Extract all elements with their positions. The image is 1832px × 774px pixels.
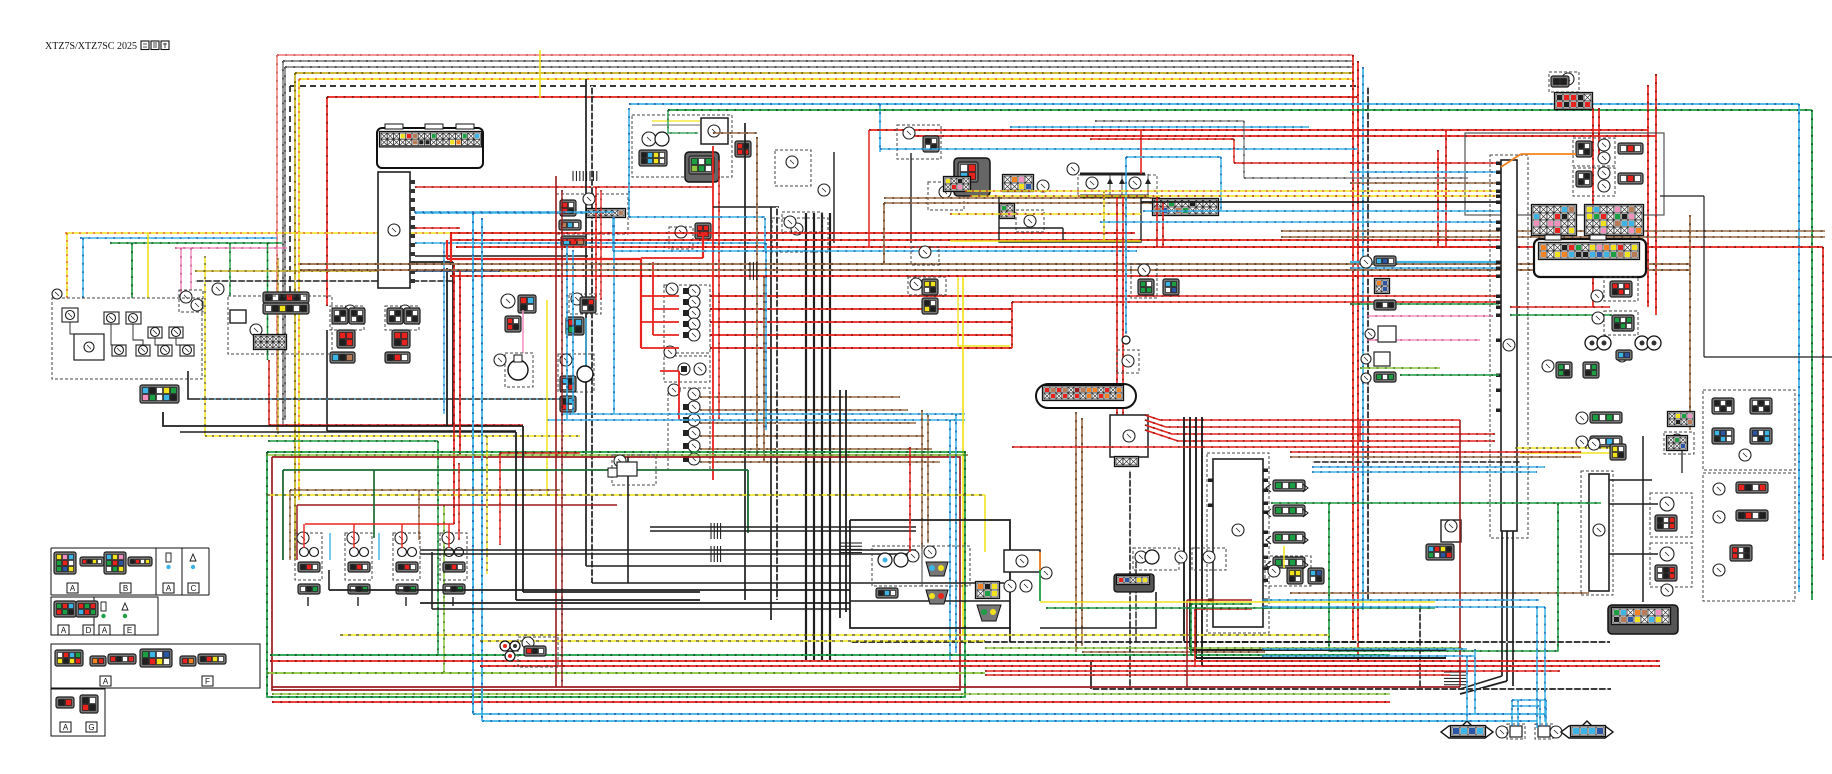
meter box 59: [1207, 453, 1269, 633]
relay 85: [62, 308, 78, 322]
wire yellow pair right: [1515, 447, 1610, 449]
wire bundle into tail unit: [1290, 451, 1581, 453]
wire red center risers: [453, 265, 455, 524]
diode 4: [669, 227, 693, 249]
wire yellow drop to connector B: [539, 50, 541, 98]
rear connector wide: [1608, 605, 1678, 634]
wire yellow mid bottom: [267, 494, 985, 496]
relay 90: [136, 345, 150, 356]
bottom connector row: [1441, 721, 1493, 738]
wire red feed fusebox: [1140, 130, 1142, 174]
component 27 28: [818, 184, 830, 196]
flasher connector: [954, 158, 990, 196]
svg-text:A: A: [70, 584, 76, 593]
svg-text:F: F: [205, 677, 210, 686]
wire black bottom trunk: [1091, 688, 1611, 690]
wire red 447: [1012, 446, 1460, 448]
frame lines right: [1660, 195, 1704, 197]
svg-text:G: G: [88, 723, 94, 732]
right small column 37-41: [1556, 362, 1572, 378]
sensor 58: [1265, 556, 1311, 586]
junction 30: [1016, 210, 1044, 232]
small connector by headlight: [735, 141, 751, 157]
wire black pair center: [713, 206, 779, 208]
connector 29b pin grid: [1003, 175, 1034, 192]
rear sensor group 65-70: [872, 546, 922, 586]
wire red trunk lines: [450, 232, 1135, 234]
svg-text:E: E: [127, 626, 132, 635]
wire cyan bottom stubs: [1511, 700, 1513, 726]
oval connector multipin: [1036, 384, 1136, 408]
wire red ladder bus left: [446, 240, 448, 259]
license light connector: [1664, 432, 1694, 454]
wire dred coil feed: [296, 505, 298, 560]
wire blue drop: [765, 243, 767, 430]
relay 53 54 33: [911, 247, 939, 265]
sensor 47 48 wires: [1510, 306, 1610, 308]
regulator cluster 3: [556, 194, 628, 234]
wire main harness top bundle: [277, 54, 1353, 56]
svg-text:A: A: [103, 677, 109, 686]
wire brown trunk lines: [300, 263, 1690, 265]
svg-text:A: A: [166, 584, 172, 593]
svg-text:C: C: [191, 584, 197, 593]
legend probes row1: [166, 553, 171, 562]
wire black below tall box: [1501, 531, 1503, 676]
wire red ladder feeds: [710, 295, 1012, 297]
svg-text:XTZ7S/XTZ7SC 2025: XTZ7S/XTZ7SC 2025: [45, 41, 137, 52]
rear brake 62 61 60: [1135, 551, 1147, 563]
black loop center bottom: [850, 520, 1010, 628]
wire yellow fusebox: [950, 213, 1141, 215]
injector ladder 18-24: [668, 388, 710, 470]
large connector right: [1534, 239, 1646, 277]
connector R dark: [685, 152, 719, 182]
ignition switch 44 45 46: [1573, 138, 1615, 166]
wire orange green 65: [1039, 552, 1041, 570]
svg-text:A: A: [63, 723, 69, 732]
relay 25: [775, 150, 811, 186]
tail unit 56: [1581, 471, 1613, 595]
legend connectors row3: [55, 650, 83, 666]
sensor 35: [1131, 264, 1157, 298]
junction box 60-62: [228, 296, 332, 354]
right edge sensor cluster: [1703, 390, 1795, 470]
wire trunk risers right: [1186, 600, 1188, 687]
wire black staircase: [522, 426, 524, 592]
pin row with x blocks: [1153, 199, 1219, 216]
wire yellow 58: [1283, 546, 1285, 568]
wire battery ground: [188, 371, 567, 399]
relay 89: [126, 312, 141, 324]
sensor 5: [569, 294, 601, 314]
wire left feeder lines to switch box: [65, 232, 560, 234]
sensor 6 connector: [518, 295, 536, 313]
frame gray box: [1465, 133, 1664, 215]
wire yellow green drops to bottom box: [204, 256, 206, 436]
wire olive black left horizontals: [195, 270, 540, 272]
connector below battery: [140, 385, 179, 403]
fuse box 31 32 33: [1067, 163, 1079, 175]
relay 94: [180, 345, 194, 356]
wire switch internal: [70, 322, 74, 334]
relay 28: [772, 218, 828, 252]
big pin grid connectors right: [1532, 205, 1577, 236]
sensor 72 cluster: [518, 637, 558, 667]
wire cyan center verticals: [628, 108, 630, 217]
sensor 8: [505, 353, 533, 387]
wire misc right greens: [1400, 374, 1499, 376]
tail lamp 54 55: [1650, 493, 1692, 537]
svg-text:A: A: [102, 626, 108, 635]
sensor 7: [558, 354, 594, 392]
wire pink drop 191: [190, 248, 192, 290]
wire black pair from top to ECU: [585, 79, 587, 566]
wire yellow green to sensor 57: [1040, 601, 1435, 603]
wire bottom red green trunks: [270, 654, 1390, 656]
relay 93: [169, 327, 183, 338]
wire feeds to headlight: [652, 120, 700, 122]
sensor 57: [1441, 520, 1461, 542]
svg-text:A: A: [61, 626, 67, 635]
wire red drop 29: [1592, 108, 1594, 307]
wire cyan drop 34: [1126, 156, 1221, 158]
flasher 79 lower: [337, 330, 355, 348]
relay pair 79: [330, 306, 364, 330]
ECU box 77: [378, 172, 410, 288]
relay 87: [112, 345, 126, 356]
pin block 62: [254, 335, 287, 350]
injector 15-17: [664, 356, 710, 382]
wire right bundle into frame: [1350, 162, 1501, 164]
wire ECU outputs: [415, 186, 713, 188]
wire black right verticals: [1642, 436, 1644, 602]
sensor 51 52 right: [1616, 350, 1632, 360]
wire maroon verticals: [555, 176, 557, 687]
legend connectors row1: [54, 552, 76, 574]
component 1 2 headlight cluster: [632, 115, 732, 177]
wire orange jumper: [1521, 153, 1576, 155]
main connector B multi-pin: [377, 128, 483, 168]
wire cyan long mid: [1010, 126, 1309, 128]
relay pair 78: [385, 306, 419, 330]
fuel sender 70 71: [612, 455, 656, 485]
wire red verticals by frame: [1437, 150, 1439, 247]
relay 27: [928, 182, 964, 210]
wire cyan green top pair: [629, 103, 1799, 105]
right bottom cluster: [1703, 473, 1795, 601]
wire dark green vertical: [747, 470, 749, 533]
wire black loop fusebox: [999, 196, 1141, 242]
starter 86: [74, 334, 104, 360]
wire red main from headlight: [712, 146, 714, 480]
wire yellow center: [546, 300, 548, 495]
injector ladder 9-14: [664, 285, 710, 353]
wire left harness vertical bundle: [276, 55, 278, 430]
meter connectors green: [1273, 480, 1305, 491]
legend connectors row2: [54, 601, 76, 617]
wire red right trunk: [1360, 419, 1460, 421]
wire right harness vertical bundle: [1352, 55, 1354, 640]
wire lgreen mid: [266, 454, 965, 456]
svg-text:B: B: [123, 584, 128, 593]
wire red fanout from 20: [1145, 415, 1360, 420]
connector top middle grids: [944, 177, 971, 192]
wire red yellow elbow: [1090, 138, 1234, 140]
junction box 20: [1110, 415, 1148, 457]
wire green pink right: [1350, 303, 1499, 305]
wire bottom yellow pair: [340, 634, 1329, 636]
wire right red loop top: [869, 129, 1648, 131]
wire right mid horizontals: [1143, 210, 1501, 212]
connector 29 top right: [1549, 72, 1579, 92]
wire coil feeds: [373, 470, 375, 538]
wire right lower cyan: [1262, 599, 1539, 601]
flasher 78 lower: [392, 330, 410, 348]
connector 63 pin row: [263, 292, 309, 303]
wire coil ground: [329, 589, 850, 591]
wire green loop meter: [1329, 503, 1558, 651]
wire yellow drop fusebox: [1103, 191, 1105, 241]
switch unit box 84: [52, 298, 202, 379]
wire brown coil box: [289, 490, 291, 560]
rear connector F1: [1114, 574, 1154, 592]
black bundle mid right: [1183, 417, 1185, 642]
legend table: [51, 548, 260, 736]
horn 49 50: [1585, 336, 1599, 350]
relay 88: [104, 312, 119, 324]
relay 91: [148, 327, 162, 338]
ignition coils 73-76: [295, 533, 322, 580]
wire gray path right: [1095, 120, 1244, 122]
thick black bundle verticals: [805, 213, 807, 660]
connector 29 right mid: [1668, 412, 1695, 427]
abs unit 65: [1004, 550, 1040, 572]
legend connectors row4: [56, 697, 74, 708]
tall connector 43: [1490, 155, 1528, 538]
wire red drops from fusebox: [1116, 196, 1118, 425]
svg-text:D: D: [86, 626, 92, 635]
relay 92: [158, 345, 172, 356]
sensor column 36-41: [1360, 256, 1372, 268]
relay 26: [897, 125, 941, 159]
wire brown ladder feeds: [700, 396, 900, 398]
wire bottom green red boxes: [267, 452, 965, 697]
